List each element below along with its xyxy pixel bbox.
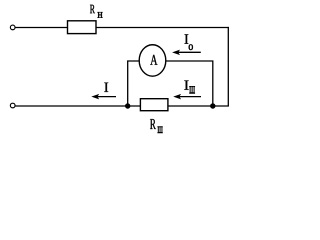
current arrow Iо	[178, 51, 201, 53]
junction node left	[125, 103, 130, 108]
terminal bottom-left	[10, 103, 15, 108]
wire top left segment	[15, 27, 67, 29]
label Iш (ш subscript)	[189, 86, 195, 93]
wire right vertical	[227, 27, 229, 106]
label Rн (R glyph)	[90, 5, 95, 13]
ammeter A1 circle	[139, 45, 166, 76]
terminal top-left	[10, 25, 15, 30]
label Iш (I glyph)	[184, 80, 188, 89]
resistor R1 Rн load	[68, 21, 97, 34]
current arrow Iш	[179, 96, 201, 98]
wire top right segment	[96, 27, 229, 29]
resistor R2 Rш shunt	[140, 99, 168, 111]
current arrow I	[97, 96, 117, 98]
label Rш (R glyph)	[150, 119, 156, 129]
label Rн (н subscript)	[98, 12, 103, 17]
label Rш (ш subscript)	[158, 127, 163, 133]
label Iо (о subscript)	[189, 44, 193, 50]
wire ammeter right lead	[166, 61, 213, 106]
label Iо (I glyph)	[185, 34, 189, 43]
label I	[104, 83, 108, 92]
wire bottom	[15, 105, 229, 107]
wire ammeter left lead	[128, 61, 139, 106]
ammeter label A	[150, 55, 157, 65]
junction node right	[210, 103, 215, 108]
